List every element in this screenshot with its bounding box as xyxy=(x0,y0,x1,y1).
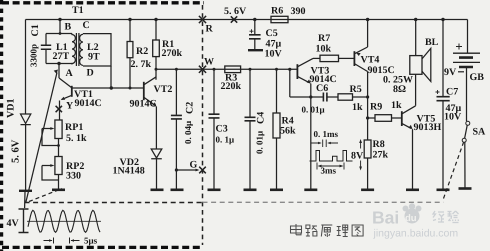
sine waveform xyxy=(28,210,100,232)
svg-text:1k: 1k xyxy=(352,102,363,113)
svg-text:270k: 270k xyxy=(162,48,183,59)
svg-text:VT4: VT4 xyxy=(361,55,380,66)
svg-text:G: G xyxy=(190,160,198,171)
resistor R8 xyxy=(364,140,371,189)
svg-text:R8: R8 xyxy=(373,139,385,150)
C2 ground xyxy=(171,189,184,192)
svg-text:9014C: 9014C xyxy=(130,99,157,110)
svg-text:0. 04μ: 0. 04μ xyxy=(183,121,193,144)
svg-text:10V: 10V xyxy=(265,49,283,60)
dashed link to RP2 xyxy=(29,189,62,202)
photodiode VD1 xyxy=(19,114,32,208)
speaker BL xyxy=(410,18,431,82)
svg-text:330: 330 xyxy=(66,171,81,182)
transistor VT4 xyxy=(354,18,369,140)
svg-text:R6: R6 xyxy=(271,6,283,17)
C3 ground xyxy=(208,189,221,192)
potentiometer RP2 xyxy=(42,157,62,189)
node A wire xyxy=(57,62,60,78)
caption dian-lu-yuan-li-tu xyxy=(291,224,364,237)
watermark jing-yan xyxy=(433,211,459,223)
wire W to C6 branch xyxy=(288,68,323,97)
wire left branch from rail xyxy=(25,20,27,115)
svg-text:VD1: VD1 xyxy=(6,99,17,118)
svg-text:3300p: 3300p xyxy=(29,44,39,67)
0.1ms dimension arrows xyxy=(311,140,338,148)
transistor VT3 xyxy=(297,58,313,189)
svg-text:10k: 10k xyxy=(316,44,332,55)
capacitor C6 xyxy=(323,93,338,102)
svg-text:0. 1ms: 0. 1ms xyxy=(314,129,339,139)
svg-text:390: 390 xyxy=(291,6,306,17)
resistor R3 xyxy=(225,66,241,73)
svg-text:5. 6V: 5. 6V xyxy=(11,139,22,163)
VD2 ground xyxy=(151,189,164,192)
R4 ground xyxy=(270,189,283,192)
switch SA xyxy=(462,121,470,187)
capacitor C1 xyxy=(41,34,51,64)
svg-text:T1: T1 xyxy=(72,5,84,16)
svg-text:9013H: 9013H xyxy=(414,122,442,133)
svg-text:D: D xyxy=(87,68,94,79)
T1 core xyxy=(76,33,79,66)
case border top dashed xyxy=(2,1,204,4)
SA ground xyxy=(459,187,472,190)
svg-text:Bai: Bai xyxy=(372,208,399,228)
svg-text:W: W xyxy=(204,57,214,68)
svg-text:A: A xyxy=(66,68,74,79)
svg-text:C3: C3 xyxy=(216,124,228,135)
3ms dimension arrows xyxy=(317,163,344,170)
svg-text:8Ω: 8Ω xyxy=(393,84,406,95)
wire top supply rail xyxy=(26,19,468,21)
resistor R6 xyxy=(271,16,288,22)
svg-text:4V: 4V xyxy=(7,218,20,229)
R8 ground xyxy=(361,189,374,192)
svg-text:27T: 27T xyxy=(53,51,70,62)
svg-text:56k: 56k xyxy=(280,126,296,137)
block divider vertical dashed xyxy=(202,5,204,245)
svg-text:3ms: 3ms xyxy=(321,166,337,176)
sine axis xyxy=(27,220,101,222)
svg-text:Y: Y xyxy=(66,101,74,112)
svg-text:C6: C6 xyxy=(316,83,328,94)
case border left dashed xyxy=(0,0,3,251)
case border bottom dashed xyxy=(2,246,203,249)
wire VT1-VT2 base bus xyxy=(72,87,144,89)
svg-text:9014C: 9014C xyxy=(75,98,102,109)
svg-text:C2: C2 xyxy=(185,102,196,114)
svg-text:0. 1μ: 0. 1μ xyxy=(216,135,235,145)
4V amplitude bar xyxy=(19,209,29,233)
capacitor C5 xyxy=(248,18,263,50)
capacitor C7 xyxy=(436,18,450,189)
potentiometer RP1 xyxy=(42,120,62,157)
battery GB xyxy=(453,20,480,122)
svg-text:220k: 220k xyxy=(221,81,242,92)
5us dimension marks xyxy=(44,238,80,244)
svg-text:VT2: VT2 xyxy=(154,84,173,95)
svg-text:C5: C5 xyxy=(266,28,278,39)
svg-text:0. 01μ: 0. 01μ xyxy=(302,105,325,115)
resistor R5 xyxy=(338,94,368,100)
wire W rail xyxy=(156,68,297,70)
capacitor C2 xyxy=(171,68,182,189)
svg-text:R7: R7 xyxy=(318,33,330,44)
resistor R1 xyxy=(153,18,160,80)
svg-text:1N4148: 1N4148 xyxy=(113,166,145,177)
svg-text:SA: SA xyxy=(473,127,487,138)
svg-text:9T: 9T xyxy=(88,52,100,63)
node G wire with arrow xyxy=(176,169,199,172)
resistor R2 xyxy=(127,18,133,90)
svg-text:27k: 27k xyxy=(373,150,389,161)
node W x-mark xyxy=(199,66,206,73)
pulse waveform xyxy=(310,151,353,162)
capacitor C4 xyxy=(245,68,256,189)
resistor R9 xyxy=(368,115,402,122)
svg-text:GB: GB xyxy=(470,72,485,83)
VT3 ground xyxy=(304,189,317,192)
SA dashed link xyxy=(444,143,464,199)
transistor VT5 xyxy=(402,75,416,190)
svg-text:5. 1k: 5. 1k xyxy=(66,133,87,144)
svg-text:RP1: RP1 xyxy=(65,122,83,133)
svg-text:2. 7k: 2. 7k xyxy=(131,59,152,70)
svg-text:0. 01μ: 0. 01μ xyxy=(255,131,265,154)
capacitor C3 xyxy=(209,68,220,189)
8V arrow xyxy=(359,139,362,171)
resistor R7 xyxy=(313,55,354,61)
svg-text:9V: 9V xyxy=(444,67,457,78)
resistor R4 xyxy=(273,68,280,189)
svg-text:C1: C1 xyxy=(30,24,41,36)
block divider horizontal dashed right xyxy=(203,201,444,203)
svg-text:R2: R2 xyxy=(136,46,148,57)
svg-text:5. 6V: 5. 6V xyxy=(224,6,247,17)
C4 ground xyxy=(244,189,257,192)
inductor L2 xyxy=(80,34,111,66)
svg-text:C4: C4 xyxy=(256,112,267,124)
light arrow to VT1 xyxy=(26,70,58,203)
inductor L1 xyxy=(46,34,75,65)
node R x-mark xyxy=(199,16,206,23)
transistor VT2 xyxy=(144,77,157,149)
VT1 emitter x-mark xyxy=(56,106,62,112)
svg-text:B: B xyxy=(65,22,72,33)
transistor VT1 xyxy=(59,78,72,120)
svg-text:R: R xyxy=(206,24,214,35)
C7 ground xyxy=(437,189,450,192)
node D wire xyxy=(110,66,113,90)
node B wire xyxy=(58,18,61,35)
svg-text:1k: 1k xyxy=(391,100,402,111)
svg-text:BL: BL xyxy=(425,37,439,48)
svg-text:R9: R9 xyxy=(370,102,382,113)
VT5 ground xyxy=(406,189,419,192)
svg-text:10V: 10V xyxy=(444,112,462,123)
svg-text:C7: C7 xyxy=(446,87,458,98)
svg-text:R5: R5 xyxy=(350,84,362,95)
RP2 ground bar xyxy=(52,189,65,192)
node G x-mark xyxy=(199,167,206,174)
diode VD2 1N4148 xyxy=(151,149,162,189)
block divider horizontal dashed left xyxy=(25,202,203,204)
svg-text:jingyan.baidu.com: jingyan.baidu.com xyxy=(373,228,459,240)
svg-text:5μs: 5μs xyxy=(84,236,98,246)
watermark baidu xyxy=(372,203,422,227)
5.6V rail x-mark xyxy=(231,16,237,22)
svg-text:8V: 8V xyxy=(351,151,364,162)
svg-text:du: du xyxy=(405,213,417,224)
svg-text:C: C xyxy=(83,20,90,31)
